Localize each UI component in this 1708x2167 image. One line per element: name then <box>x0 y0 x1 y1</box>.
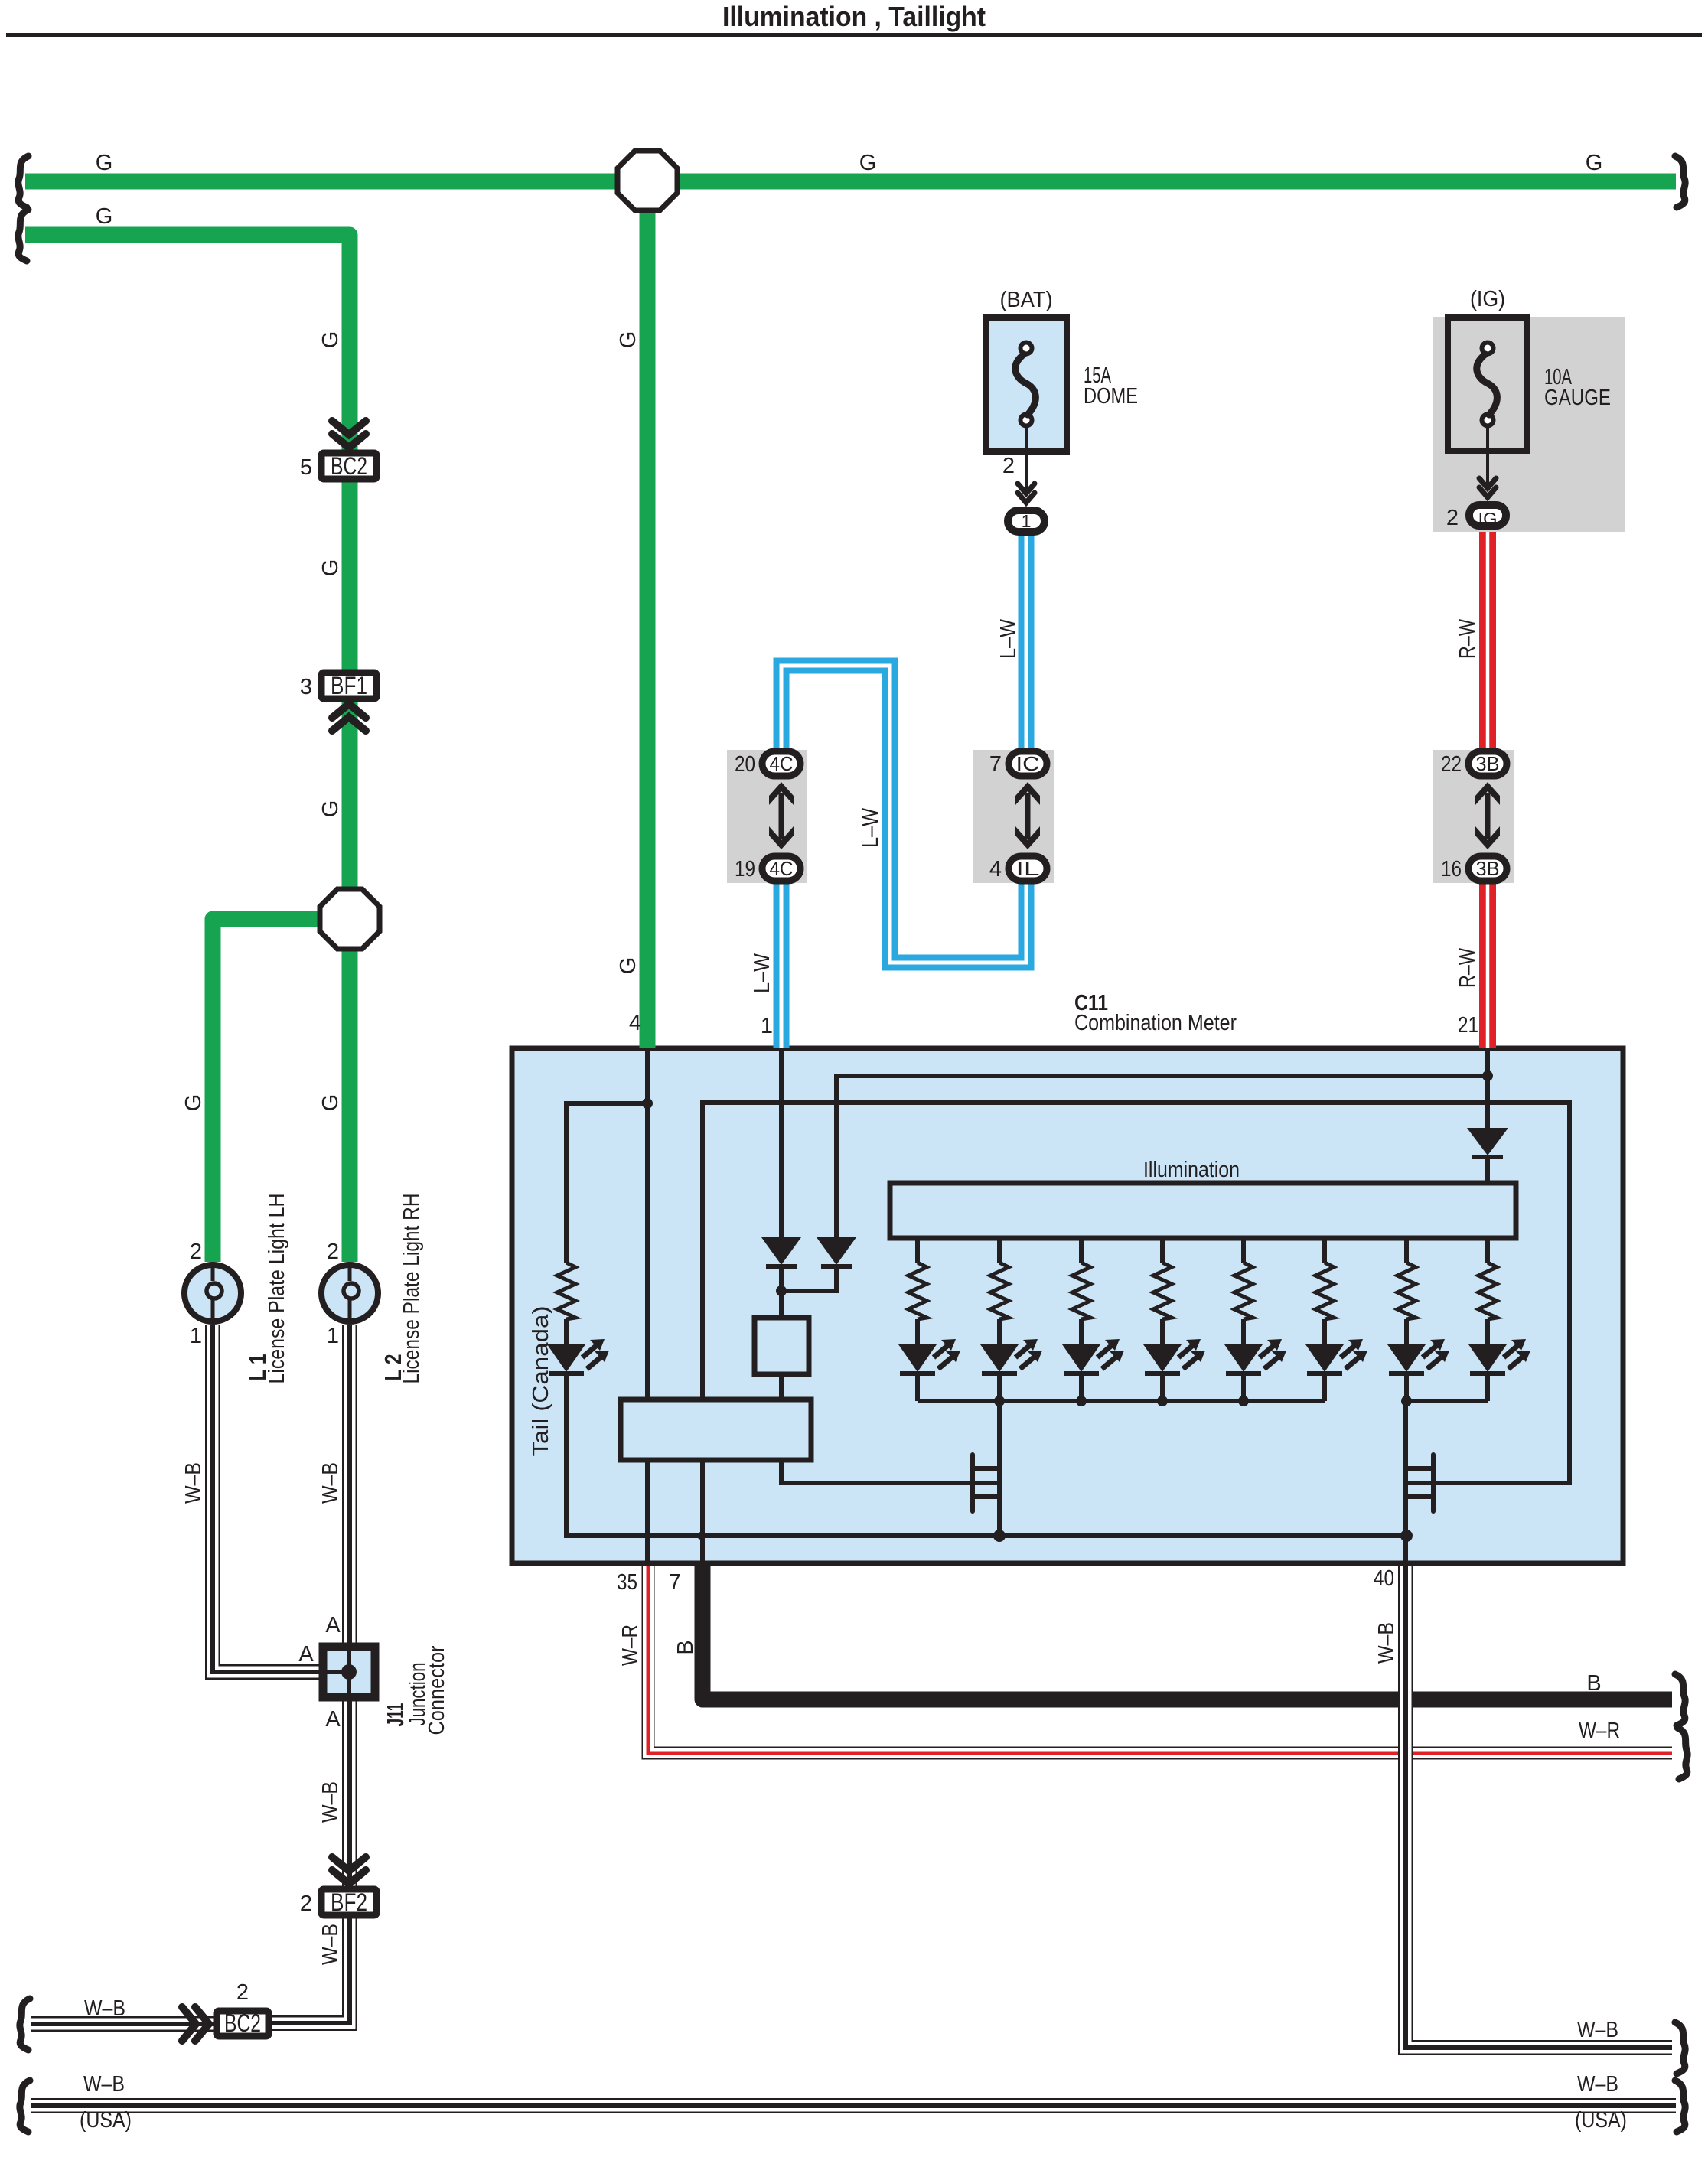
wire W-B from pin40 <box>1406 1566 1672 2048</box>
transistor Q2 right <box>1431 1455 1436 1511</box>
illumination branch 2 wire <box>997 1238 1002 1344</box>
arrow into BF2 <box>332 1857 366 1888</box>
svg-text:Illumination: Illumination <box>1143 1158 1240 1182</box>
svg-text:A: A <box>325 1707 341 1732</box>
svg-text:2: 2 <box>236 1980 249 2005</box>
resistor R3 <box>1072 1263 1090 1319</box>
svg-text:40: 40 <box>1374 1566 1394 1591</box>
svg-text:5: 5 <box>300 455 312 480</box>
illumination bus bar <box>890 1183 1516 1238</box>
svg-text:R–W: R–W <box>1455 948 1480 988</box>
arrow into connector IG <box>1479 478 1496 501</box>
bulb L1 license plate light <box>184 1265 241 1321</box>
svg-text:BC2: BC2 <box>331 452 367 480</box>
svg-text:L–W: L–W <box>996 618 1021 659</box>
svg-text:G: G <box>318 331 343 349</box>
svg-text:19: 19 <box>735 857 755 881</box>
svg-text:1: 1 <box>1022 511 1032 531</box>
connector BC2 bottom <box>217 2011 269 2036</box>
led cathode bus A <box>918 1399 1325 1403</box>
svg-text:2: 2 <box>327 1240 339 1264</box>
arrow into connector 1 <box>1018 484 1035 507</box>
brace left W-B mid <box>20 1999 30 2050</box>
junction connector J11 <box>323 1647 375 1697</box>
svg-text:BF1: BF1 <box>331 672 367 699</box>
svg-text:Tail (Canada): Tail (Canada) <box>529 1306 553 1457</box>
LED L8 <box>1468 1344 1507 1372</box>
module small square <box>755 1318 809 1374</box>
svg-text:2: 2 <box>1002 454 1015 478</box>
oval pin IG <box>1469 505 1506 526</box>
wire G junction branch to L1 <box>213 919 320 1262</box>
fuse 10A GAUGE <box>1448 318 1527 451</box>
svg-text:W–B: W–B <box>318 1781 343 1823</box>
illumination branch 5 lower wire <box>1241 1372 1246 1401</box>
illumination branch 1 wire <box>915 1238 920 1344</box>
brace right G1 <box>1675 156 1685 207</box>
wire fuse DOME lead <box>1025 425 1028 490</box>
illumination branch 8 lower wire <box>1485 1372 1490 1401</box>
svg-text:G: G <box>318 559 343 577</box>
node bus A x1625 <box>1238 1396 1249 1406</box>
svg-text:License Plate Light RH: License Plate Light RH <box>399 1194 424 1384</box>
svg-text:(USA): (USA) <box>80 2108 132 2133</box>
svg-text:Illumination , Taillight: Illumination , Taillight <box>722 1 986 32</box>
resistor tail canada <box>557 1263 575 1319</box>
svg-text:W–B: W–B <box>1577 2072 1618 2097</box>
wire W-B bottom full <box>31 2098 1676 2113</box>
brace right W-B 40 <box>1675 2022 1685 2074</box>
svg-text:L–W: L–W <box>750 953 774 993</box>
svg-text:1: 1 <box>761 1014 773 1038</box>
arrow out of BF1 <box>332 700 366 731</box>
connector BC2 top <box>321 453 376 479</box>
illumination branch 6 wire <box>1322 1238 1327 1344</box>
wire pin7 internal loop <box>702 1103 1569 1566</box>
svg-text:2: 2 <box>300 1892 312 1916</box>
illumination branch 6 lower wire <box>1322 1372 1327 1401</box>
brace left G1 <box>18 156 28 207</box>
svg-text:W–B: W–B <box>84 1996 125 2021</box>
led cathode bus B <box>1406 1399 1488 1403</box>
svg-text:G: G <box>616 331 640 349</box>
brace left W-B bottom <box>20 2081 30 2132</box>
svg-text:A: A <box>298 1642 314 1667</box>
node bus A x1838 <box>1401 1396 1412 1406</box>
wire W-B from L1 to J11 <box>213 1325 321 1672</box>
svg-text:License Plate Light LH: License Plate Light LH <box>265 1194 289 1384</box>
brace right B <box>1675 1674 1685 1725</box>
resistor R2 <box>990 1263 1009 1319</box>
LED L6 <box>1305 1344 1344 1372</box>
oval pin 1 <box>1008 510 1045 532</box>
combination meter C11 box <box>512 1048 1623 1563</box>
svg-text:IG: IG <box>1478 509 1498 529</box>
LED L7 <box>1387 1344 1426 1372</box>
svg-text:16: 16 <box>1441 857 1462 881</box>
illumination branch 4 lower wire <box>1160 1372 1165 1401</box>
wire pin1 internal vertical <box>779 1048 784 1237</box>
LED L3 <box>1062 1344 1100 1372</box>
connector BF2 <box>321 1889 376 1915</box>
wire G BC2 to BF1 <box>342 480 358 671</box>
svg-text:G: G <box>96 204 113 229</box>
title rule <box>6 33 1702 37</box>
svg-text:G: G <box>318 1094 343 1112</box>
svg-text:IL: IL <box>1016 857 1040 880</box>
svg-text:J11: J11 <box>382 1703 409 1727</box>
wire pin4 internal vertical <box>645 1048 650 1400</box>
resistor R1 <box>908 1263 927 1319</box>
svg-text:21: 21 <box>1458 1013 1478 1038</box>
svg-text:(USA): (USA) <box>1575 2108 1627 2133</box>
panel IG gray <box>1433 317 1625 532</box>
node bus A x1413 <box>1076 1396 1087 1406</box>
svg-text:G: G <box>318 800 343 818</box>
illumination branch 7 wire <box>1404 1238 1409 1344</box>
svg-text:W–B: W–B <box>318 1924 343 1965</box>
node Q1 source <box>993 1530 1006 1542</box>
svg-text:G: G <box>1586 151 1603 175</box>
diode D3 under pin21 <box>1467 1128 1508 1155</box>
fuse 15A DOME <box>986 318 1067 451</box>
wire W-B J11 to BF2 <box>342 1699 357 1888</box>
svg-text:W–B: W–B <box>1374 1622 1399 1664</box>
illumination branch 2 lower wire <box>997 1372 1002 1401</box>
svg-text:G: G <box>96 151 113 175</box>
svg-text:W–R: W–R <box>618 1624 643 1666</box>
svg-text:Connector: Connector <box>425 1645 449 1735</box>
wire pin21 internal <box>1485 1048 1490 1128</box>
brace right W-R <box>1677 1728 1687 1779</box>
wire B from pin7 <box>702 1566 1672 1699</box>
svg-text:3B: 3B <box>1476 752 1500 775</box>
svg-text:W–B: W–B <box>318 1462 343 1504</box>
wire G junction to L2 <box>342 949 358 1262</box>
svg-text:4: 4 <box>989 857 1002 881</box>
svg-text:1: 1 <box>327 1324 339 1348</box>
resistor R8 <box>1478 1263 1497 1319</box>
svg-text:B: B <box>1586 1671 1601 1696</box>
wire G octagon to meter pin4 <box>640 210 656 1048</box>
svg-text:W–R: W–R <box>1579 1719 1620 1743</box>
svg-text:(IG): (IG) <box>1470 287 1505 311</box>
svg-text:G: G <box>181 1094 206 1112</box>
wire R-W gauge to meter pin21 <box>1479 529 1496 1048</box>
resistor R6 <box>1315 1263 1334 1319</box>
wire tail led to ground bus <box>566 1372 1406 1536</box>
svg-text:G: G <box>616 957 640 975</box>
bulb L2 license plate light <box>321 1265 378 1321</box>
svg-text:IC: IC <box>1016 752 1040 775</box>
illumination branch 7 lower wire <box>1404 1372 1409 1401</box>
arrow into BC2 top <box>332 421 366 451</box>
illumination branch 1 lower wire <box>915 1372 920 1401</box>
transistor Q1 left <box>970 1455 975 1511</box>
connector 4C pair <box>727 750 807 883</box>
diode D2 right of pair <box>817 1237 856 1265</box>
svg-text:4C: 4C <box>770 752 794 775</box>
arrow into BC2 bottom <box>182 2007 213 2041</box>
wire pin35 internal <box>645 1460 650 1566</box>
wire W-B left into BC2 <box>31 2016 214 2032</box>
svg-text:3B: 3B <box>1476 857 1500 880</box>
svg-text:BF2: BF2 <box>331 1888 367 1916</box>
wire diode pair junction <box>781 1264 836 1318</box>
node J11 center <box>341 1664 357 1680</box>
wire square to rheostat <box>779 1374 784 1400</box>
LED L2 <box>980 1344 1019 1372</box>
svg-text:W–B: W–B <box>83 2072 125 2097</box>
svg-text:2: 2 <box>190 1240 202 1264</box>
wire tail resistor to led <box>564 1319 569 1344</box>
wire G BF1 to junction <box>342 699 358 889</box>
svg-text:4C: 4C <box>770 857 794 880</box>
brace right W-B bottom <box>1675 2081 1685 2132</box>
wire D2 to top rail <box>836 1076 1488 1237</box>
svg-text:L–W: L–W <box>859 807 883 848</box>
svg-text:R–W: R–W <box>1455 619 1480 659</box>
svg-text:BC2: BC2 <box>224 2009 261 2037</box>
illumination branch 3 lower wire <box>1079 1372 1084 1401</box>
node Q2 source <box>1400 1530 1413 1542</box>
diode D1 left of pair <box>761 1237 801 1265</box>
illumination branch 3 wire <box>1079 1238 1084 1344</box>
resistor R7 <box>1397 1263 1416 1319</box>
node ground bus pin7 <box>697 1532 705 1540</box>
wire rheostat to left gate <box>781 1460 973 1483</box>
resistor R4 <box>1153 1263 1172 1319</box>
wire G main horizontal <box>25 174 1676 190</box>
connector IC/IL pair <box>973 750 1054 883</box>
wire W-R from pin35 <box>648 1566 1672 1753</box>
illumination branch 8 wire <box>1485 1238 1490 1344</box>
octagon junction top <box>618 151 677 210</box>
node pin4 junction <box>642 1098 653 1109</box>
wire tail-canada branch <box>566 1103 647 1263</box>
connector 3B pair <box>1433 750 1514 883</box>
svg-text:35: 35 <box>617 1570 637 1595</box>
svg-text:W–B: W–B <box>181 1462 206 1504</box>
LED L1 <box>898 1344 937 1372</box>
illumination branch 4 wire <box>1160 1238 1165 1344</box>
octagon junction left <box>320 889 380 949</box>
node diode pair junction <box>776 1286 787 1296</box>
svg-text:7: 7 <box>669 1570 681 1595</box>
svg-text:Combination Meter: Combination Meter <box>1074 1011 1237 1035</box>
illumination branch 5 wire <box>1241 1238 1246 1344</box>
svg-text:GAUGE: GAUGE <box>1544 386 1611 410</box>
svg-text:22: 22 <box>1441 752 1462 777</box>
wire G second horizontal to BC2 <box>25 235 350 452</box>
svg-text:(BAT): (BAT) <box>1000 288 1053 312</box>
LED L5 <box>1224 1344 1263 1372</box>
svg-text:G: G <box>859 151 877 175</box>
LED L4 <box>1143 1344 1182 1372</box>
svg-text:3: 3 <box>300 675 312 699</box>
svg-text:4: 4 <box>629 1011 641 1035</box>
resistor R5 <box>1234 1263 1253 1319</box>
connector BF1 <box>321 673 376 699</box>
svg-text:7: 7 <box>989 752 1002 777</box>
module rheostat wide rect <box>621 1400 811 1460</box>
node pin21 rail junction <box>1482 1070 1493 1081</box>
svg-text:A: A <box>325 1613 341 1637</box>
wire W-B BF2 to BC2 <box>269 1916 350 2023</box>
wire fuse GAUGE lead <box>1486 425 1489 486</box>
svg-text:W–B: W–B <box>1577 2018 1618 2042</box>
LED tail canada <box>547 1344 585 1372</box>
svg-text:B: B <box>673 1640 698 1654</box>
brace left G2 <box>18 210 28 261</box>
node bus A x1306 <box>994 1396 1005 1406</box>
wire L-W dome to meter pin1 <box>781 536 1026 1048</box>
svg-text:1: 1 <box>190 1324 202 1348</box>
wire D3 to illumination bar <box>1485 1157 1490 1183</box>
wire W-B from L2 to J11 <box>342 1325 357 1645</box>
svg-text:20: 20 <box>735 752 755 777</box>
node bus A x1519 <box>1157 1396 1168 1406</box>
svg-text:DOME: DOME <box>1084 384 1138 409</box>
svg-text:2: 2 <box>1446 506 1459 530</box>
